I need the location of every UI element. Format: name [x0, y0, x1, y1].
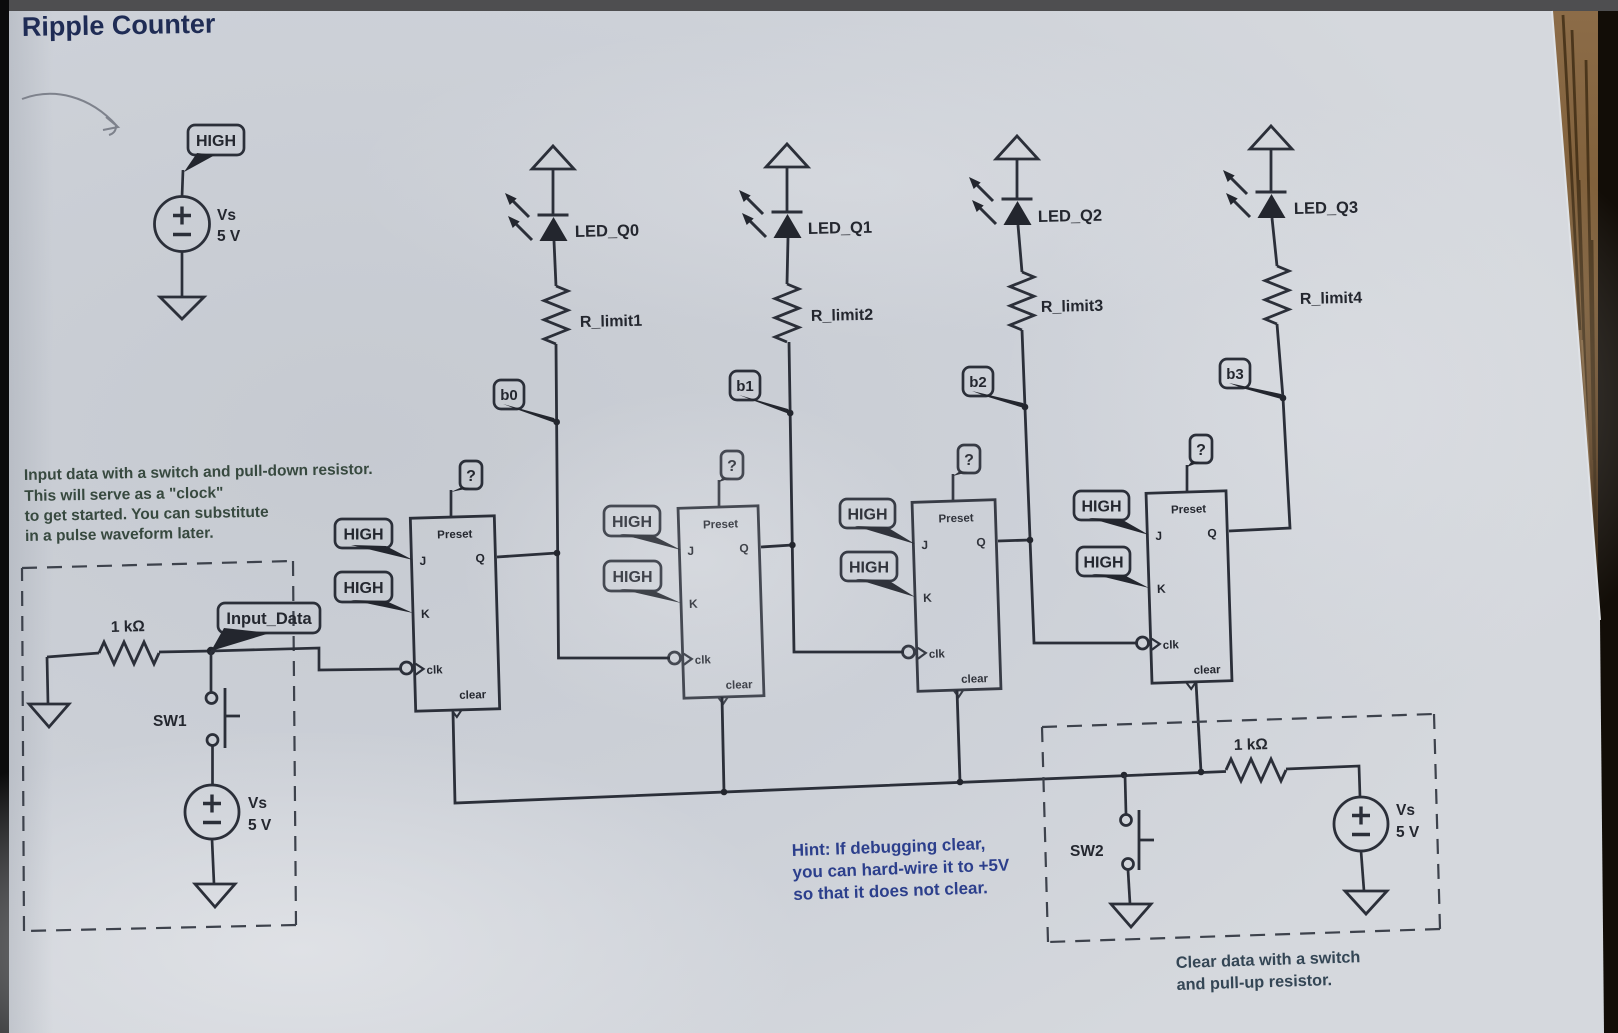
- svg-text:Ripple Counter: Ripple Counter: [22, 9, 216, 42]
- voltage source Vs 5V (input section): [185, 785, 239, 839]
- label HIGH (U4 J): [1074, 491, 1149, 535]
- wire Vs to ground (clear section): [1361, 851, 1364, 891]
- svg-text:Vs: Vs: [248, 795, 267, 812]
- svg-text:in a pulse waveform later.: in a pulse waveform later.: [25, 525, 214, 545]
- wire U3 clear drop: [957, 690, 960, 782]
- svg-text:HIGH: HIGH: [1082, 498, 1122, 515]
- label ? (preset of U1): [451, 461, 482, 492]
- voltage source Vs 5V (clear section): [1334, 797, 1388, 851]
- svg-text:?: ?: [1196, 442, 1206, 459]
- LED LED_Q0: [505, 193, 569, 241]
- wire net b1 vertical (R_limit2 to clk of U3): [789, 342, 904, 652]
- svg-text:SW2: SW2: [1070, 843, 1104, 860]
- svg-text:HIGH: HIGH: [344, 526, 384, 543]
- svg-text:HIGH: HIGH: [849, 559, 889, 576]
- pencil arrow annotation: [22, 94, 118, 135]
- svg-text:clk: clk: [929, 648, 946, 661]
- wire Vs to ground (input section): [212, 839, 214, 884]
- svg-text:1 kΩ: 1 kΩ: [111, 618, 145, 636]
- svg-text:HIGH: HIGH: [612, 514, 652, 531]
- ground (top left Vs): [160, 297, 204, 319]
- label HIGH (U2 K): [604, 561, 681, 603]
- svg-text:b1: b1: [736, 378, 754, 395]
- LED LED_Q3: [1223, 170, 1287, 218]
- svg-text:Q: Q: [1207, 526, 1217, 540]
- node b0 junction: [553, 419, 560, 426]
- power VCC arrow (LED_Q1 branch): [766, 144, 808, 167]
- LED LED_Q2: [969, 177, 1033, 225]
- label b2: [963, 367, 993, 396]
- label ? (preset of U3): [953, 445, 980, 476]
- svg-text:5 V: 5 V: [217, 228, 241, 245]
- label HIGH (U3 J): [840, 499, 915, 544]
- label HIGH (U1 K): [335, 572, 413, 613]
- note text input data: [24, 461, 374, 545]
- switch SW2: [1121, 810, 1155, 870]
- node Q1 junction: [789, 542, 796, 549]
- resistor R_limit1: [544, 286, 568, 344]
- wire U2 Q output: [761, 545, 792, 547]
- svg-text:b0: b0: [500, 387, 518, 404]
- wire U1 Q output: [497, 553, 557, 557]
- voltage source Vs 5V (top left): [155, 197, 210, 252]
- svg-text:Vs: Vs: [217, 207, 236, 224]
- wire HIGH to Vs: [182, 170, 183, 197]
- svg-text:HIGH: HIGH: [1084, 554, 1124, 571]
- ground (pull-down): [47, 657, 48, 704]
- wire LED to resistor: [1018, 225, 1022, 272]
- wire VCC to LED: [552, 169, 555, 215]
- node b2 junction: [1022, 404, 1029, 411]
- svg-text:HIGH: HIGH: [344, 580, 384, 597]
- wire SW2 to ground: [1128, 870, 1130, 904]
- svg-text:clear: clear: [725, 679, 753, 692]
- wire net b0 vertical (R_limit1 to clk of U2): [556, 344, 670, 658]
- flip-flop U2 (JK): [669, 480, 765, 705]
- wire ground to resistor: [47, 653, 99, 657]
- svg-text:b2: b2: [969, 374, 987, 391]
- wire net b2 vertical (R_limit3 to clk of U4): [1022, 330, 1138, 643]
- node clear bus j2: [957, 779, 964, 786]
- svg-text:J: J: [921, 538, 928, 552]
- svg-text:clk: clk: [695, 654, 712, 667]
- wire LED to resistor: [1272, 218, 1277, 266]
- svg-text:Preset: Preset: [938, 512, 974, 525]
- wire U2 clear drop: [722, 697, 724, 792]
- svg-text:?: ?: [466, 468, 476, 485]
- flip-flop U4 (JK): [1137, 465, 1233, 690]
- wire net b3 vertical (R_limit4 to Q of U4): [1229, 324, 1290, 531]
- svg-text:HIGH: HIGH: [848, 506, 888, 523]
- wire resistor to Vs (pull-up): [1286, 766, 1360, 797]
- label HIGH (U4 K): [1077, 547, 1149, 588]
- dashed box: clear switch section: [1042, 714, 1440, 942]
- note text hint: [791, 833, 1011, 904]
- power VCC arrow (LED_Q2 branch): [996, 136, 1038, 159]
- svg-text:HIGH: HIGH: [613, 569, 653, 586]
- svg-text:K: K: [421, 607, 430, 621]
- power VCC arrow (LED_Q3 branch): [1250, 126, 1292, 149]
- resistor R_limit4: [1265, 266, 1289, 324]
- svg-text:K: K: [923, 591, 932, 605]
- resistor 1k pull-up: [1226, 759, 1286, 781]
- svg-text:clear: clear: [1193, 664, 1221, 677]
- svg-text:LED_Q0: LED_Q0: [575, 222, 640, 241]
- power VCC arrow (LED_Q0 branch): [532, 146, 574, 169]
- label ? (preset of U4): [1187, 435, 1212, 467]
- label Input_Data: [218, 603, 320, 633]
- svg-text:5 V: 5 V: [248, 817, 272, 834]
- label HIGH (Vs top): [188, 125, 244, 155]
- svg-text:R_limit2: R_limit2: [811, 307, 874, 325]
- wire U4 clear drop: [1196, 682, 1201, 772]
- svg-text:?: ?: [964, 452, 974, 469]
- ground (SW2): [1111, 904, 1151, 927]
- flip-flop U1 (JK): [401, 490, 500, 718]
- wire node to switch SW1: [210, 651, 213, 692]
- svg-text:b3: b3: [1226, 366, 1244, 383]
- label b1: [730, 371, 760, 400]
- svg-text:R_limit3: R_limit3: [1041, 298, 1104, 316]
- svg-text:Q: Q: [739, 541, 749, 555]
- svg-text:R_limit1: R_limit1: [580, 313, 643, 331]
- wire U3 Q output: [998, 540, 1030, 541]
- wire U1 clear to bus: [453, 712, 1226, 803]
- flip-flop U3 (JK): [903, 474, 1002, 698]
- ground (clear section Vs): [1345, 891, 1387, 914]
- svg-text:K: K: [1157, 582, 1166, 596]
- svg-text:J: J: [419, 554, 426, 568]
- node clear bus j3: [1198, 769, 1205, 776]
- resistor R_limit3: [1010, 272, 1034, 330]
- label HIGH (U3 K): [841, 552, 915, 597]
- svg-text:Preset: Preset: [437, 528, 473, 541]
- svg-text:R_limit4: R_limit4: [1300, 290, 1363, 308]
- node Input_Data junction: [207, 647, 215, 655]
- LED LED_Q1: [739, 190, 803, 238]
- svg-text:5 V: 5 V: [1396, 824, 1420, 841]
- svg-text:clear: clear: [459, 689, 487, 702]
- svg-text:Input_Data: Input_Data: [226, 610, 312, 628]
- ground (input section): [195, 884, 235, 907]
- svg-text:J: J: [687, 544, 694, 558]
- resistor 1k pull-down: [99, 642, 159, 664]
- svg-text:Vs: Vs: [1396, 802, 1415, 819]
- wire resistor to node: [159, 651, 211, 652]
- wire VCC to LED: [786, 167, 789, 212]
- wire LED to resistor: [787, 238, 788, 284]
- wire Vs to ground: [181, 251, 184, 297]
- dashed box: input switch section: [22, 561, 296, 931]
- svg-text:This will serve as a "clock": This will serve as a "clock": [24, 485, 223, 505]
- switch SW1: [206, 688, 240, 748]
- node SW2 junction: [1121, 772, 1128, 779]
- svg-text:SW1: SW1: [153, 713, 187, 730]
- node clear bus j1: [721, 789, 728, 796]
- wire Input_Data to U1 clk: [211, 648, 402, 670]
- node Q2 junction: [1027, 537, 1034, 544]
- label b3: [1220, 359, 1250, 388]
- node Q0 junction: [554, 550, 561, 557]
- svg-text:HIGH: HIGH: [196, 133, 236, 150]
- svg-text:?: ?: [727, 458, 737, 475]
- wire VCC to LED: [1270, 149, 1273, 192]
- wire LED to resistor: [554, 241, 556, 286]
- label ? (preset of U2): [719, 451, 743, 482]
- svg-text:Q: Q: [976, 535, 986, 549]
- svg-text:Preset: Preset: [1171, 503, 1207, 516]
- wire VCC to LED: [1016, 159, 1019, 199]
- node b1 junction: [787, 410, 794, 417]
- svg-text:Q: Q: [475, 551, 485, 565]
- wire SW1 to Vs: [211, 746, 214, 785]
- svg-text:LED_Q2: LED_Q2: [1038, 207, 1103, 226]
- node b3 junction: [1280, 395, 1287, 402]
- svg-text:clear: clear: [961, 673, 989, 686]
- svg-text:clk: clk: [1163, 639, 1180, 652]
- svg-text:LED_Q1: LED_Q1: [808, 219, 873, 238]
- label HIGH (U1 J): [335, 519, 413, 560]
- label b0: [494, 380, 524, 409]
- label HIGH (U2 J): [604, 506, 681, 550]
- svg-text:J: J: [1155, 529, 1162, 543]
- resistor R_limit2: [775, 284, 799, 342]
- wire junction to SW2: [1125, 775, 1126, 814]
- svg-text:LED_Q3: LED_Q3: [1294, 199, 1359, 218]
- svg-text:clk: clk: [426, 664, 443, 676]
- svg-text:1 kΩ: 1 kΩ: [1234, 736, 1268, 754]
- svg-text:K: K: [689, 597, 698, 611]
- note text clear data: [1176, 948, 1362, 994]
- svg-text:Preset: Preset: [703, 518, 739, 531]
